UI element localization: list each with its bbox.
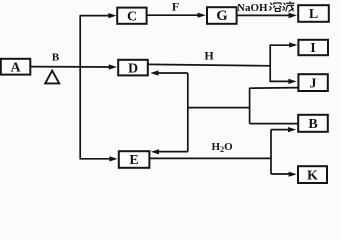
box K [298,166,327,183]
box D [118,60,148,77]
svg-text:NaOH: NaOH [237,2,268,14]
svg-text:H2O: H2O [212,141,234,154]
wire E output (H2O line) [150,157,271,159]
svg-text:L: L [309,7,318,22]
wire J output left [250,87,299,90]
box E [119,151,150,168]
arrow trunk to C [80,13,117,18]
svg-text:E: E [129,153,138,168]
wire return vertical [187,73,189,152]
svg-text:I: I [310,41,315,56]
svg-text:B: B [308,117,317,132]
box G [207,7,237,24]
box I [298,40,328,56]
label B [52,52,60,64]
wire split vertical I/J [269,45,271,81]
heat symbol Δ [45,71,59,84]
arrow return into D [150,70,188,75]
wire cross to return vertical [188,107,250,109]
arrow into B lower [271,127,296,132]
wire vertical B/K [270,130,272,174]
svg-text:G: G [216,8,227,24]
arrow G to L [237,13,297,19]
arrow into K [271,172,297,177]
wire vertical at 249 [249,88,251,124]
arrow trunk to E [80,156,118,161]
svg-text:F: F [172,0,179,14]
wire D to split (H line) [148,64,270,65]
label 溶液 (drawn strokes) [269,1,294,11]
svg-text:B: B [52,52,60,64]
svg-text:H: H [204,49,214,63]
box B [298,115,328,132]
box A [1,59,31,76]
wire into B upper [250,123,298,125]
box J [298,74,327,91]
svg-text:J: J [310,76,317,91]
label H [204,49,214,63]
arrow C to G [147,13,206,18]
svg-text:A: A [10,61,21,76]
svg-text:D: D [128,61,138,76]
arrow into J [270,79,297,84]
box L [298,5,329,22]
wire A to D with arrowhead [31,64,117,69]
label H2O [212,141,234,154]
arrow return into E [151,149,188,154]
svg-text:K: K [307,168,318,183]
svg-text:C: C [127,9,137,24]
arrow into I [270,42,298,47]
trunk wire [79,16,81,159]
box C [117,8,146,25]
label NaOH [237,2,268,14]
label F [172,0,179,14]
